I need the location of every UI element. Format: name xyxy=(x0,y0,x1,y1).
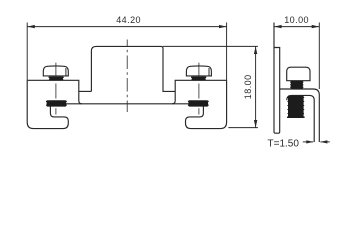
dimension 10.00 left arrow xyxy=(274,25,282,28)
side saddle inner arch xyxy=(287,95,314,142)
side screw upper thread band xyxy=(291,81,303,89)
dimension 18.00 top arrow xyxy=(254,46,257,54)
side saddle outer arch xyxy=(280,89,320,142)
screw S1 washer/thread band upper xyxy=(49,77,63,81)
screw S2 thread band lower xyxy=(189,100,209,106)
dimension 44.20 line xyxy=(27,26,226,28)
screw S1 thread band lower xyxy=(47,100,67,106)
left step connector xyxy=(79,90,92,92)
right claw outer profile xyxy=(186,80,227,128)
dimension 18.00 top extension xyxy=(163,45,258,47)
body outline: right step edge and claw top surface xyxy=(172,80,227,104)
screw S2 head (right) xyxy=(186,66,211,76)
extension line right (part right edge up to dim) xyxy=(226,23,228,81)
raised plate top edge xyxy=(96,46,163,48)
part centerline (dash-dot) xyxy=(126,40,128,113)
dimension 18.00 bottom arrow xyxy=(254,120,257,128)
screw S1 head (left) xyxy=(43,66,68,76)
svg-text:44.20: 44.20 xyxy=(116,15,141,25)
screw S2 head inner edge line xyxy=(208,68,210,76)
side screw head xyxy=(287,67,310,81)
raised plate left edge xyxy=(91,46,96,91)
dimension 18.00 line xyxy=(255,46,257,127)
lower bar bottom edge xyxy=(50,103,205,105)
dimension 10.00 right arrow xyxy=(312,25,320,28)
svg-text:18.00: 18.00 xyxy=(243,74,253,99)
side screw lower thread band xyxy=(288,96,304,117)
screw S1 head inner edge line xyxy=(65,68,67,76)
left claw outer profile xyxy=(27,80,68,128)
dimension 10.00 line xyxy=(274,26,319,28)
svg-text:T=1.50: T=1.50 xyxy=(268,138,300,149)
screw S2 centerline xyxy=(198,63,200,77)
screw S1 centerline xyxy=(55,63,57,77)
extension line left (part left edge up to dim) xyxy=(26,23,28,81)
svg-text:10.00: 10.00 xyxy=(284,15,309,25)
raised plate right edge xyxy=(163,49,175,92)
side saddle outer leg extension up xyxy=(318,23,320,90)
screw S2 washer/thread band upper xyxy=(192,77,206,81)
T=1.50 leader arrows xyxy=(303,141,314,143)
dimension 44.20 left arrow xyxy=(27,25,35,28)
side plate (vertical blade) xyxy=(274,23,280,134)
dimension 18.00 bottom extension xyxy=(228,127,258,129)
body outline: left claw top surface and step edge xyxy=(27,80,82,104)
dimension 44.20 right arrow xyxy=(219,25,227,28)
